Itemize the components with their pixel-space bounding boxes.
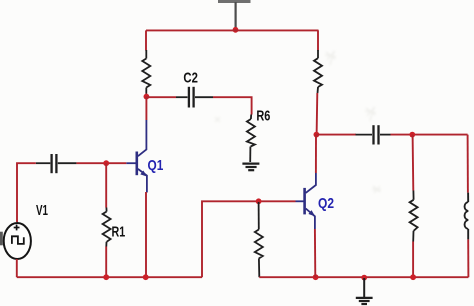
junction Q1 collector / C2 node bbox=[144, 94, 150, 100]
junction VCC tap bbox=[233, 27, 239, 33]
resistor R1 bbox=[103, 208, 111, 247]
wire cap to right nodes bbox=[391, 134, 468, 136]
inductor (right) bbox=[465, 193, 469, 240]
wire Q1 emitter down bbox=[145, 192, 147, 277]
source V1 bbox=[4, 223, 31, 259]
junction bias node bbox=[256, 198, 262, 204]
wire mid node right bbox=[316, 134, 356, 136]
wire collector node down bbox=[145, 97, 147, 120]
wire to mid node bbox=[316, 93, 319, 135]
wire load resistor bottom bbox=[412, 242, 414, 278]
capacitor (output coupling) bbox=[356, 125, 391, 144]
wire Q2 collector branch top bbox=[317, 30, 319, 50]
wire ground rail left bbox=[17, 276, 202, 278]
wire input corner bbox=[17, 163, 36, 222]
junction R1 / base node bbox=[103, 160, 109, 166]
junction mid node bbox=[314, 132, 320, 138]
junction Q2 emitter bottom bbox=[313, 274, 319, 280]
capacitor (input coupling) bbox=[36, 154, 77, 173]
junction load node bbox=[409, 132, 415, 138]
resistor (load) bbox=[410, 191, 418, 242]
wire to collector node bbox=[145, 94, 147, 98]
wire ground rail right bbox=[259, 276, 468, 278]
svg-text:C2: C2 bbox=[183, 69, 198, 86]
wire Q1 base bbox=[76, 162, 126, 164]
wire Q1 collector branch top bbox=[145, 30, 147, 50]
svg-text:Q2: Q2 bbox=[318, 195, 334, 212]
ground (main rail) bbox=[356, 278, 373, 304]
svg-text:Q1: Q1 bbox=[148, 157, 164, 174]
wire C2 to R6 bbox=[213, 97, 252, 114]
wire Q2 emitter down bbox=[314, 229, 316, 277]
resistor (Q1 collector load) bbox=[142, 50, 150, 94]
wire right corner down bbox=[467, 135, 469, 193]
junction Q1 emitter bottom bbox=[143, 274, 149, 280]
wire V1 bottom bbox=[16, 259, 18, 277]
resistor R6 bbox=[247, 115, 255, 163]
svg-text:R6: R6 bbox=[256, 107, 270, 124]
wire top rail bbox=[146, 29, 319, 31]
capacitor C2 bbox=[176, 87, 213, 108]
resistor (Q2 bias) bbox=[255, 202, 263, 277]
power rail VCC symbol bbox=[218, 0, 251, 28]
transistor Q1 bbox=[126, 120, 147, 193]
source V1 left edge mark bbox=[0, 232, 3, 246]
svg-text:R1: R1 bbox=[112, 224, 126, 241]
wire inductor bottom bbox=[467, 239, 469, 277]
wire Q2 collector bbox=[315, 135, 317, 173]
junction load bottom bbox=[410, 274, 416, 280]
resistor (Q2 collector load) bbox=[314, 50, 322, 93]
wire riser to Q2 base line bbox=[202, 201, 296, 277]
watermark speck bbox=[215, 51, 381, 193]
ground (R6) bbox=[242, 164, 259, 171]
wire load resistor top bbox=[412, 135, 415, 191]
transistor Q2 bbox=[296, 173, 316, 229]
junction ground tap bbox=[361, 275, 367, 281]
junction R1 bottom bbox=[103, 274, 109, 280]
wire C2 left bbox=[146, 96, 176, 98]
svg-text:V1: V1 bbox=[36, 202, 48, 219]
wire R1 bottom bbox=[105, 247, 107, 278]
wire R1 top bbox=[105, 163, 107, 207]
